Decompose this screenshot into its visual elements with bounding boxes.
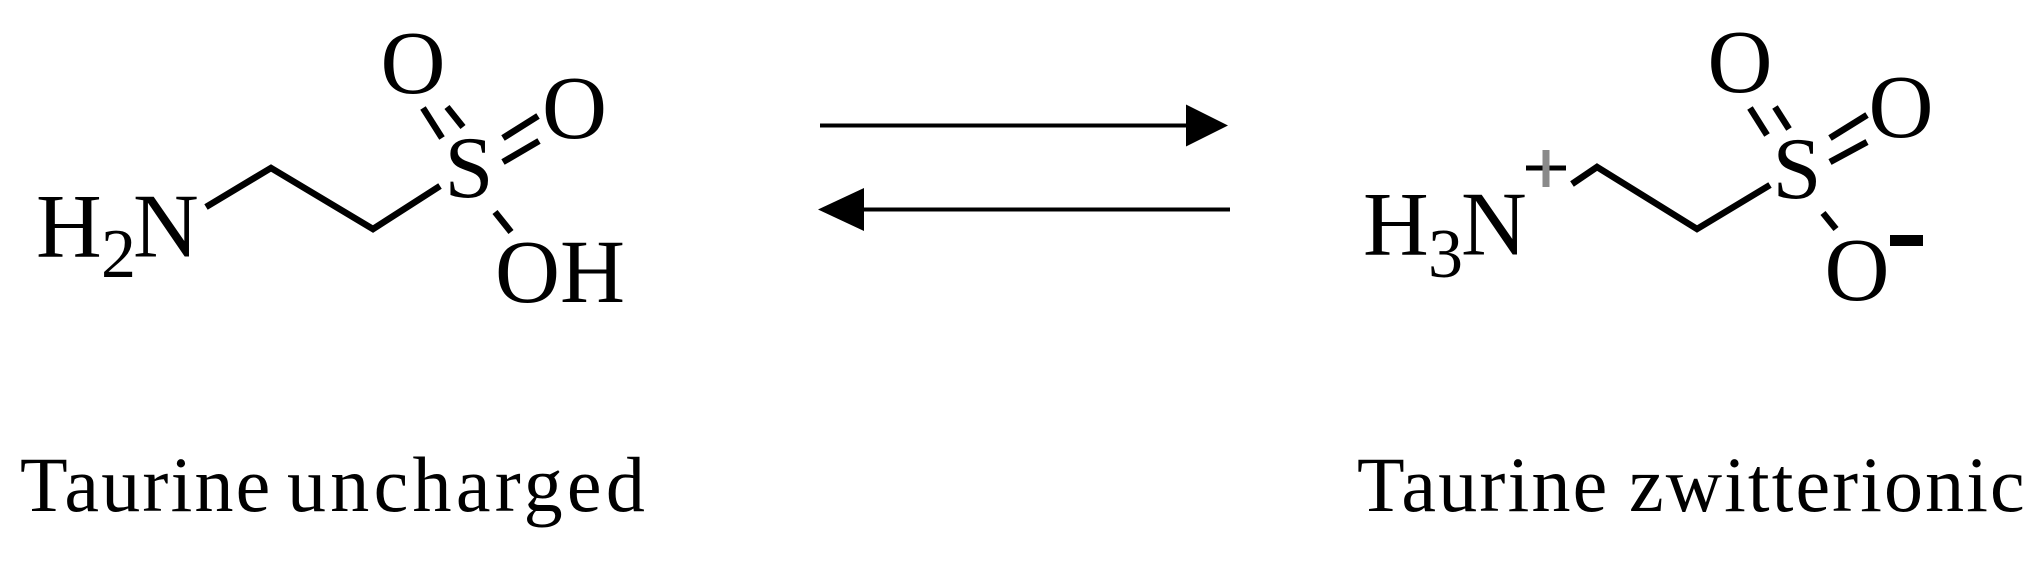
amine label H2N xyxy=(36,176,199,294)
svg-text:S: S xyxy=(445,120,494,217)
ammonium label H3N xyxy=(1363,174,1527,294)
svg-text:O: O xyxy=(1869,58,1934,157)
svg-text:uncharged: uncharged xyxy=(287,441,649,528)
caption: Taurine uncharged xyxy=(20,441,649,528)
svg-text:H: H xyxy=(36,176,102,277)
forward arrow (right) xyxy=(820,105,1228,147)
double bond S=O top: dash 1 xyxy=(1750,108,1767,135)
svg-text:O: O xyxy=(1825,221,1890,320)
double bond S=O top: dash 2 xyxy=(447,107,463,127)
svg-text:OH: OH xyxy=(495,223,625,322)
double bond S=O top: dash 2 xyxy=(1775,107,1789,129)
svg-text:3: 3 xyxy=(1428,216,1463,293)
double bond S=O right: dash 1 xyxy=(503,116,538,138)
svg-text:H: H xyxy=(1363,174,1429,275)
svg-text:N: N xyxy=(133,176,199,277)
carbon chain zigzag (N-CH2-CH2-S) xyxy=(1572,167,1770,229)
plus charge on N xyxy=(1526,150,1566,187)
double bond S=O right: dash 1 xyxy=(1830,115,1867,138)
svg-text:O: O xyxy=(381,14,446,113)
double bond S=O top: dash 1 xyxy=(423,108,442,138)
double bond S=O right: dash 2 xyxy=(1830,142,1867,162)
svg-text:Taurine: Taurine xyxy=(1357,441,1610,528)
svg-text:O: O xyxy=(542,59,607,158)
single bond S-OH xyxy=(495,212,511,232)
svg-text:S: S xyxy=(1773,121,1822,218)
minus charge bar xyxy=(1890,235,1923,246)
svg-text:zwitterionic: zwitterionic xyxy=(1629,441,2027,528)
single bond S-O(minus) xyxy=(1823,213,1836,229)
svg-text:2: 2 xyxy=(101,216,136,293)
reverse arrow (left) xyxy=(818,188,1230,231)
caption: Taurine zwitterionic xyxy=(1357,441,2027,528)
svg-text:Taurine: Taurine xyxy=(20,441,273,528)
svg-text:O: O xyxy=(1708,13,1773,112)
double bond S=O right: dash 2 xyxy=(503,141,539,162)
svg-text:N: N xyxy=(1461,174,1527,275)
carbon chain zigzag (N-CH2-CH2-S) xyxy=(206,168,440,229)
